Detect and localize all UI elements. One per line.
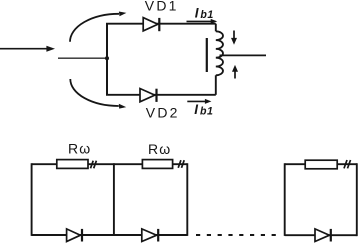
svg-text:b1: b1 [200, 106, 213, 118]
svg-text:Rω: Rω [68, 141, 91, 157]
svg-text:I: I [194, 102, 198, 117]
svg-text:I: I [195, 6, 199, 21]
svg-text:b1: b1 [200, 9, 213, 21]
svg-text:VD1: VD1 [145, 0, 179, 13]
svg-text:VD2: VD2 [146, 105, 180, 121]
svg-text:Rω: Rω [148, 141, 171, 157]
